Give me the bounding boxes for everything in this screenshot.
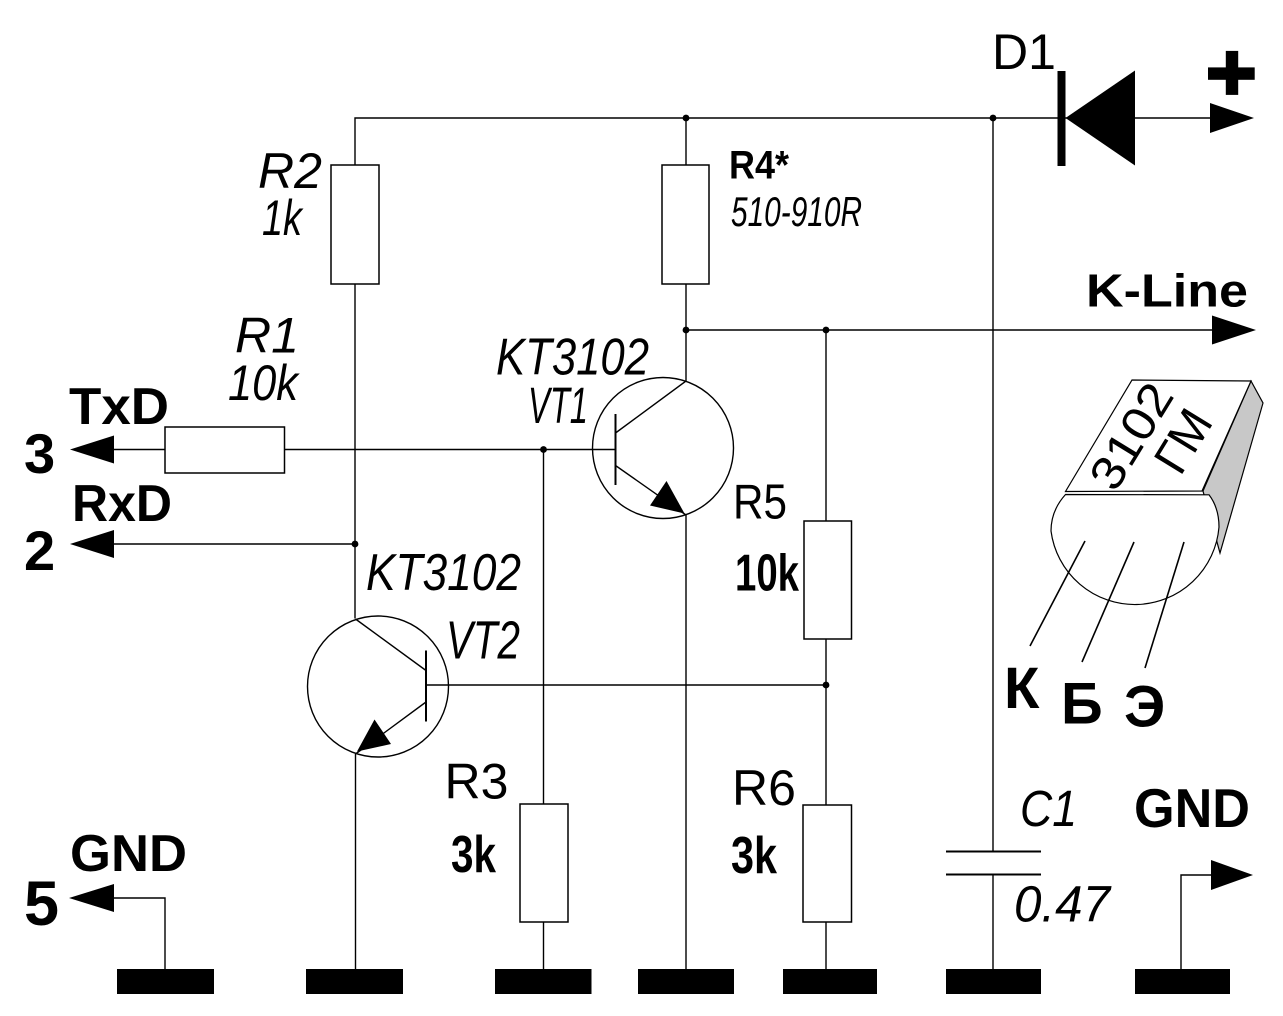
wire R6 bottom	[825, 922, 827, 969]
svg-text:510-910R: 510-910R	[731, 188, 862, 235]
ground bar 1	[117, 969, 214, 994]
svg-text:GND: GND	[70, 825, 187, 883]
diode D1 triangle	[1066, 71, 1136, 166]
package top face	[1066, 380, 1252, 492]
svg-text:R5: R5	[733, 476, 787, 530]
arrow K-Line	[1212, 316, 1256, 345]
package lead K	[1030, 541, 1085, 646]
resistor R2	[331, 165, 379, 284]
wire RxD	[114, 543, 355, 545]
svg-text:TxD: TxD	[69, 378, 169, 436]
svg-text:1k: 1k	[262, 190, 304, 246]
wire R1 to VT1 base	[285, 449, 616, 451]
transistor VT2	[308, 616, 449, 757]
wire TxD to R1	[114, 449, 165, 451]
svg-text:R6: R6	[732, 760, 796, 816]
plus symbol	[1208, 67, 1255, 79]
ground bar 7	[1135, 969, 1230, 994]
arrow RxD pin2	[70, 530, 114, 558]
svg-text:RxD: RxD	[72, 475, 172, 533]
arrow GND right	[1211, 860, 1253, 890]
ground bar 2	[306, 969, 403, 994]
ground bar 6	[946, 969, 1041, 994]
ground bar 5	[783, 969, 877, 994]
ground bar 4	[638, 969, 734, 994]
resistor R4	[662, 165, 709, 284]
capacitor C1	[946, 851, 1041, 853]
wire C1 bottom	[992, 874, 994, 969]
arrow GND pin5	[69, 884, 114, 912]
package side face	[1203, 381, 1263, 553]
resistor R1	[165, 427, 285, 473]
ground bar 3	[495, 969, 592, 994]
resistor R3	[520, 804, 568, 922]
wire VT1 emitter to ground	[685, 515, 687, 969]
wire K-Line	[686, 329, 1213, 331]
svg-text:K-Line: K-Line	[1086, 265, 1248, 317]
wire R4 top stub	[685, 118, 687, 165]
svg-text:VT2: VT2	[446, 611, 520, 671]
svg-text:R3: R3	[445, 754, 509, 810]
wire C1 top	[992, 118, 994, 851]
svg-text:2: 2	[24, 519, 55, 582]
wire GND right	[1181, 875, 1212, 969]
svg-text:Б: Б	[1061, 672, 1103, 737]
arrow TxD pin3	[70, 436, 114, 464]
wire top rail	[355, 118, 1213, 165]
svg-text:D1: D1	[992, 24, 1056, 80]
svg-text:К: К	[1004, 656, 1040, 721]
wire R3 top	[543, 450, 545, 805]
svg-text:10k: 10k	[735, 545, 799, 603]
svg-text:C1: C1	[1020, 780, 1077, 837]
svg-text:KT3102: KT3102	[366, 544, 521, 602]
wire R3 bottom	[543, 922, 545, 969]
svg-text:3k: 3k	[451, 826, 496, 884]
wire VT2 emitter to ground	[355, 754, 357, 969]
junction dots	[683, 115, 690, 122]
svg-text:3k: 3k	[731, 827, 777, 885]
package lead E	[1145, 542, 1184, 668]
package body front face	[1051, 495, 1219, 605]
resistor R6	[803, 805, 852, 922]
svg-text:5: 5	[24, 869, 59, 939]
package lead B	[1082, 542, 1134, 662]
wire R4 bottom to VT1 collector	[685, 284, 687, 381]
wire R2 to VT2 collector	[354, 284, 356, 619]
arrow plus output	[1210, 103, 1254, 133]
svg-text:10k: 10k	[228, 355, 301, 411]
svg-text:Э: Э	[1124, 675, 1165, 740]
wire VT2 base to R5/R6 node	[426, 684, 826, 686]
transistor VT1	[593, 378, 734, 519]
svg-text:GND: GND	[1134, 777, 1250, 839]
svg-text:R4*: R4*	[729, 144, 789, 188]
svg-text:0.47: 0.47	[1014, 876, 1112, 933]
wire R5 bottom	[825, 639, 827, 685]
svg-text:VT1: VT1	[528, 377, 588, 434]
svg-text:3: 3	[24, 422, 55, 485]
resistor R5	[804, 521, 852, 639]
wire R6 top	[825, 685, 827, 805]
diode D1 cathode bar	[1058, 71, 1066, 166]
KT3102 package drawing	[1030, 373, 1263, 668]
wire R5 top	[825, 330, 827, 521]
wire pin5 to ground	[114, 898, 165, 969]
